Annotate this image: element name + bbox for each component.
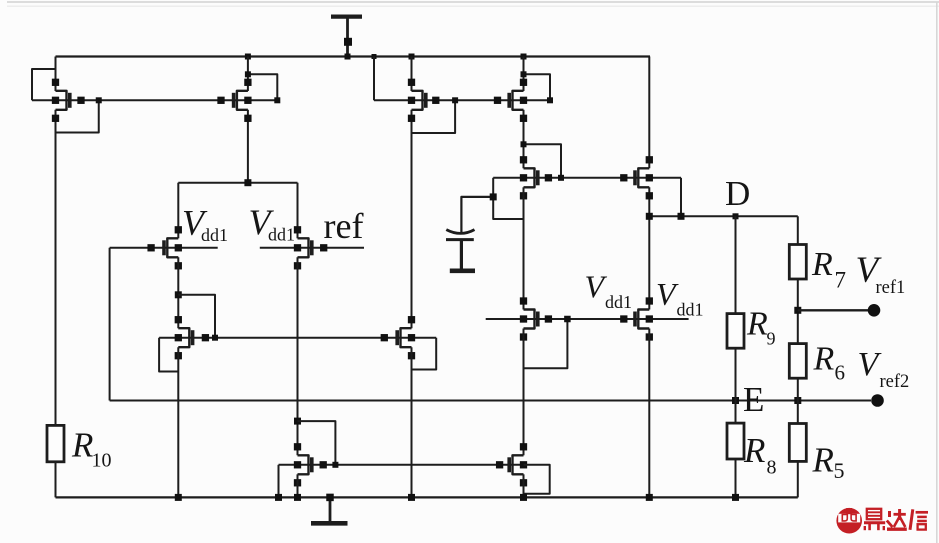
wire E to R8: [735, 401, 737, 424]
wire R9 from D: [735, 216, 737, 313]
wire gate row 4 bus: [486, 318, 689, 320]
wire M7 gate and body row: [110, 247, 218, 249]
junction M11 branch: [564, 316, 571, 323]
junction Vref1: [794, 307, 801, 314]
wire R9 to E: [735, 348, 737, 400]
pmos M7 core: [147, 226, 182, 269]
ground rail wire: [56, 496, 798, 498]
junction M9 loop: [212, 335, 218, 341]
watermark logo: [836, 508, 862, 534]
nmos M11 core: [520, 297, 552, 340]
wire R8 to ground rail: [735, 459, 737, 497]
terminal Vref1: [868, 304, 881, 317]
nmos M13 core: [294, 443, 327, 486]
wire feedback E to M7 gate: [109, 248, 111, 401]
svg-text:dd1: dd1: [677, 300, 704, 320]
svg-text:R: R: [813, 341, 835, 378]
wire M6 column: [648, 57, 650, 169]
wire gate row 1 right bus: [374, 99, 550, 101]
wire M9 body loop: [159, 338, 178, 372]
svg-text:5: 5: [834, 458, 845, 483]
pmos M4 core: [494, 79, 527, 122]
junction rail-M2: [245, 54, 251, 60]
junction M13 drain top: [294, 418, 301, 425]
nmos M10 core: [381, 316, 416, 359]
wire M6 body drop to node D: [680, 178, 682, 217]
junction M4 body loop top: [521, 71, 527, 77]
junction M4 body loop corner: [547, 97, 553, 103]
wire M14 body loop: [524, 465, 550, 494]
wire gate row 1 left bus: [32, 99, 277, 101]
node D wire: [649, 215, 798, 217]
wire M11 source down: [523, 329, 525, 456]
svg-text:6: 6: [835, 361, 846, 385]
junction rail-M3 body drop: [372, 54, 377, 59]
wire M13 body lead to ground: [278, 465, 280, 498]
wire M13 source to rail: [297, 474, 299, 497]
wire M7 drain down: [177, 257, 179, 328]
svg-text:10: 10: [92, 450, 112, 472]
svg-text:dd1: dd1: [605, 292, 632, 312]
svg-text:R: R: [811, 246, 833, 283]
wire M2 column: [247, 57, 249, 92]
resistor R9 body: [727, 314, 744, 349]
resistor R10 body: [47, 425, 64, 461]
wire gate row 6 bus: [279, 464, 524, 466]
wire Vref1 output: [798, 309, 868, 311]
svg-text:ref1: ref1: [876, 278, 906, 298]
nmos M9 core: [175, 316, 209, 359]
wire M10 body loop: [412, 338, 437, 370]
wire M1 body loop: [32, 69, 56, 100]
wire M12 source down: [648, 329, 650, 498]
pmos M5 core: [520, 156, 552, 199]
junction rail-M4: [521, 54, 527, 60]
wire tail from M2: [178, 182, 297, 184]
wire R5 to ground rail: [797, 461, 799, 497]
junction M5 loop bottom: [558, 175, 564, 181]
VDD supply symbol: [331, 15, 362, 57]
wire tail right drop: [297, 183, 299, 239]
wire M8 body and gate row: [260, 247, 364, 249]
wire M1 drain column: [55, 57, 57, 92]
wire M8 drain down: [297, 257, 299, 455]
junction M3 loop: [452, 97, 458, 103]
resistor R5 body: [789, 424, 806, 462]
wire M13 gate-drain loop: [298, 421, 336, 465]
pmos M3 core: [408, 79, 440, 122]
junction cap branch: [490, 193, 497, 200]
pmos M8 core: [294, 226, 327, 269]
wire gate row 5 bus: [159, 337, 436, 339]
junction M5 loop top: [521, 141, 527, 147]
svg-text:ref: ref: [324, 206, 364, 246]
junction M13 loop: [332, 462, 338, 468]
wire M10 source down: [411, 347, 413, 497]
wire gate row 2 bus: [493, 177, 681, 179]
wire M9 gate-drain loop: [178, 295, 215, 338]
node E wire: [110, 400, 871, 402]
wire M5 column lower: [523, 187, 525, 309]
svg-text:R: R: [746, 306, 768, 343]
junction M14-ground: [520, 494, 527, 501]
wire R10 to ground rail: [55, 462, 57, 498]
junction M2 body loop top: [245, 71, 251, 77]
wire M14 source to rail: [523, 474, 525, 497]
wire M2 body loop: [248, 74, 277, 100]
junction M13 body-ground: [275, 494, 282, 501]
svg-text:dd1: dd1: [201, 225, 228, 245]
capacitor C1: [446, 230, 475, 271]
pmos M6 core: [620, 156, 653, 199]
wire M5 body loop: [493, 178, 523, 219]
wire tail left drop: [177, 183, 179, 239]
junction E-R5R6: [794, 397, 801, 404]
junction M9 column-ground: [175, 494, 182, 501]
svg-text:D: D: [725, 174, 750, 213]
resistor R6 body: [789, 344, 806, 379]
right border line: [936, 2, 938, 543]
junction D-M6 column: [646, 213, 653, 220]
svg-text:7: 7: [835, 268, 847, 293]
junction M12-ground rail: [646, 494, 653, 501]
wire M3 column: [411, 57, 413, 92]
top border line: [7, 1, 939, 3]
pmos M2 core: [217, 79, 251, 122]
wire M11 gate-drain branch: [524, 319, 568, 368]
VDD top rail wire: [56, 55, 651, 57]
junction M2 body loop corner: [274, 97, 280, 103]
watermark text da: [887, 509, 907, 529]
svg-text:E: E: [743, 380, 764, 419]
wire M9 source down: [177, 347, 179, 497]
wire M5 gate-drain loop: [524, 144, 562, 178]
nmos M12 core: [620, 297, 653, 340]
wire M4 body loop: [524, 74, 551, 100]
junction M13-ground: [294, 494, 301, 501]
resistor R7 body: [789, 245, 806, 280]
junction M10 column-ground: [408, 494, 415, 501]
watermark text xin: [910, 509, 928, 530]
svg-text:8: 8: [767, 457, 777, 479]
wire M3 gate-drain loop: [412, 100, 456, 133]
terminal Vref2: [871, 394, 884, 407]
watermark text ding: [864, 509, 885, 530]
wire capacitor branch: [461, 197, 493, 232]
ground symbol: [311, 494, 348, 524]
junction M9 drain: [175, 291, 182, 298]
wire M3 body drop from rail: [373, 57, 375, 101]
junction tail: [244, 179, 251, 186]
svg-text:ref2: ref2: [880, 372, 910, 392]
svg-text:R: R: [812, 441, 834, 480]
junction R8-ground: [732, 494, 739, 501]
svg-text:R: R: [743, 431, 765, 470]
wire D to R7: [797, 216, 799, 244]
pmos M1 core: [52, 79, 85, 122]
junction rail-M3: [409, 54, 415, 60]
svg-text:9: 9: [767, 329, 776, 349]
resistor R8 body: [727, 423, 744, 459]
wire M4 column upper: [523, 57, 525, 92]
wire R7 to R6: [797, 279, 799, 344]
svg-text:R: R: [71, 426, 93, 465]
wire R6 to E line: [797, 378, 799, 423]
svg-text:dd1: dd1: [268, 225, 295, 245]
junction E-R8: [732, 397, 739, 404]
nmos M14 core: [496, 443, 527, 486]
junction D-M6 body drop: [678, 213, 685, 220]
junction M1 loop: [96, 97, 102, 103]
wire M1 gate-drain loop: [56, 100, 99, 132]
junction rail-VDD stem: [345, 54, 351, 60]
junction D-R9: [733, 213, 739, 219]
